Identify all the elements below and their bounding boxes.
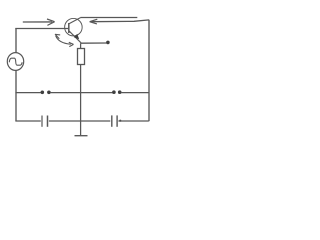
ground [75,121,88,136]
wire: middle horizontal right segment [121,92,149,94]
wire: left vertical, top corner down to AC source [15,28,17,53]
wire: bottom right segment [118,120,148,122]
wire: bottom middle segment [49,120,110,122]
node: right break dots [112,90,121,94]
wire: middle horizontal center segment [50,92,112,94]
node: small dot right of C2 [119,120,121,122]
wire: left vertical lower [15,70,17,121]
capacitor C2 [112,115,117,126]
arrow: base current pointing right [23,19,55,25]
wire: middle horizontal left segment [15,92,40,94]
node: left break dots [41,91,51,95]
capacitor C1 [42,116,48,127]
AC source V1 [7,53,23,71]
curved arrow: feedback annotation near base [55,34,74,46]
wire: bottom left segment [15,120,40,122]
resistor R [78,43,85,121]
wire: collector line to upper right [81,17,138,19]
wire: right vertical [148,20,150,122]
emitter wire with terminal dot [81,41,110,45]
transistor Q1 [65,18,83,43]
arrow: collector current pointing left (top-right wire) [90,19,149,24]
wire: top-left horizontal (base lead) [15,28,68,30]
